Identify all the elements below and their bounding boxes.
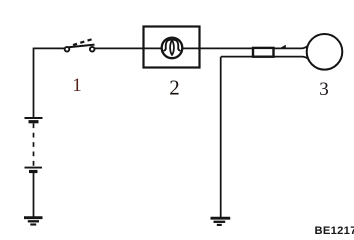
svg-text:1: 1	[72, 75, 82, 96]
ground (battery side) bar 3	[30, 223, 36, 225]
wire: return drop to chassis ground	[220, 57, 222, 217]
current direction arrow	[278, 45, 286, 49]
battery cell 1 short plate	[29, 120, 39, 123]
bulb envelope inside lamp unit	[162, 38, 183, 59]
battery dashed link	[33, 123, 35, 166]
test-lamp connector body	[253, 48, 274, 57]
wire: battery to ground	[33, 173, 35, 218]
battery cell 1 long plate	[25, 117, 43, 119]
wire: battery feed vertical drop	[33, 48, 35, 118]
wire: switch to lamp unit	[95, 47, 144, 49]
test lamp bulb 3	[307, 34, 343, 70]
ground (battery side) bar 1	[24, 216, 43, 219]
svg-text:3: 3	[319, 79, 329, 100]
wire inside lamp unit	[143, 47, 200, 49]
wire: connector to bulb (lower lead)	[273, 57, 309, 60]
lamp unit box 2	[144, 27, 200, 68]
switch 1 lever (open position, dashed)	[73, 39, 94, 45]
bulb filament arch	[163, 40, 180, 51]
ground (battery side) bar 2	[28, 220, 39, 222]
wire: battery feed horizontal (corner to switch)	[34, 47, 66, 49]
switch 1 right contact	[90, 47, 95, 52]
wire: lamp unit to test-lamp connector	[200, 47, 253, 49]
wire: test-lamp return (horizontal)	[221, 56, 253, 58]
battery cell 2 long plate	[25, 167, 43, 169]
switch 1 left contact	[65, 47, 70, 52]
wire: connector to bulb (upper lead)	[273, 45, 309, 49]
bulb filament centre loop	[170, 40, 174, 55]
switch 1 lever (closed position)	[69, 45, 95, 48]
svg-text:BE1217: BE1217	[315, 225, 354, 234]
ground (lamp side) bar 3	[217, 224, 222, 226]
battery cell 2 short plate	[29, 170, 38, 173]
ground (lamp side) bar 2	[214, 221, 226, 223]
ground (lamp side) bar 1	[211, 217, 231, 220]
svg-text:2: 2	[169, 76, 180, 100]
